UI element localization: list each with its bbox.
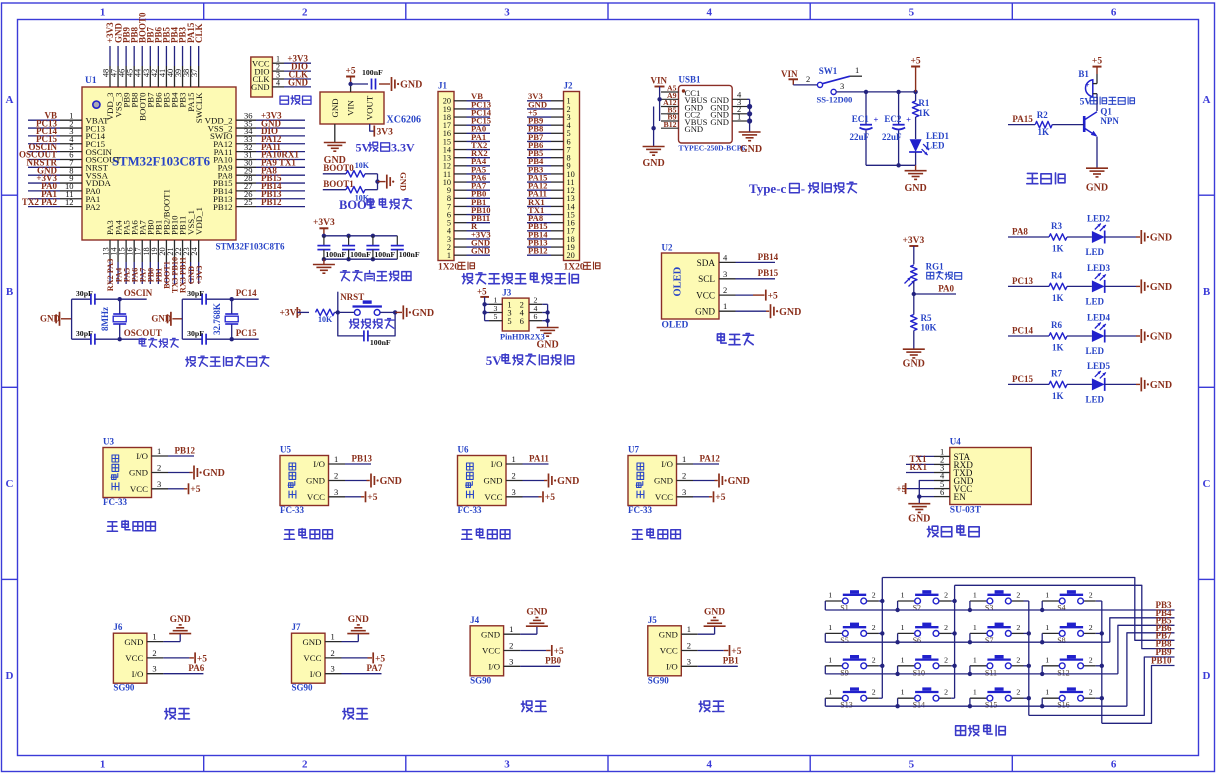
power +5 (523, 491, 556, 503)
svg-text:1: 1 (828, 688, 832, 697)
svg-text:OLED: OLED (672, 266, 683, 296)
svg-text:20: 20 (567, 251, 575, 260)
node PC15 (230, 328, 259, 341)
svg-text:1: 1 (1045, 591, 1049, 600)
svg-text:TYPEC-250D-BCP6: TYPEC-250D-BCP6 (679, 144, 746, 153)
wire gnd rail (866, 163, 916, 167)
resistor R6 1K (1049, 333, 1067, 339)
svg-text:22uF: 22uF (882, 132, 902, 142)
svg-text:S12: S12 (1057, 668, 1069, 677)
svg-text:1: 1 (828, 623, 832, 632)
svg-text:J3: J3 (502, 288, 512, 298)
svg-text:SDA: SDA (697, 258, 716, 268)
svg-text:VCC: VCC (125, 653, 143, 663)
U1 pin 38 PA15 (182, 22, 196, 112)
svg-text:B: B (1203, 286, 1211, 298)
svg-text:37: 37 (190, 69, 199, 77)
wire row3 to PB5 (1118, 625, 1175, 674)
node PC13 (1008, 285, 1049, 287)
svg-text:J6: J6 (113, 622, 123, 632)
wire (1067, 285, 1092, 287)
svg-text:2: 2 (331, 648, 335, 658)
svg-text:GND: GND (399, 172, 409, 191)
node PB15 (736, 268, 779, 279)
svg-text:SG90: SG90 (648, 675, 670, 685)
pushbutton reset (338, 300, 395, 315)
svg-text:PA11: PA11 (529, 453, 549, 463)
svg-text:-: - (801, 181, 805, 196)
svg-text:S3: S3 (985, 604, 993, 613)
node OSCOUT (118, 328, 162, 341)
wire row2 to PB4 (1110, 618, 1175, 642)
svg-text:J2: J2 (564, 81, 574, 91)
ic U5 FC-33 (280, 445, 345, 516)
svg-text:VCC: VCC (303, 653, 321, 663)
U1 pin 7 NRST (26, 158, 108, 173)
svg-text:5V: 5V (356, 141, 371, 155)
svg-text:1K: 1K (1052, 343, 1064, 353)
svg-text:GND: GND (659, 629, 678, 639)
svg-text:R1: R1 (918, 98, 929, 108)
svg-text:VCC: VCC (307, 492, 325, 502)
ground (168, 466, 225, 480)
U1 pin 15 PA5 (118, 220, 132, 284)
U1 pin 31 PA10 (213, 150, 305, 165)
capacitor 100nF filter 4 (391, 236, 420, 259)
svg-text:2: 2 (872, 591, 876, 600)
svg-text:+: + (906, 115, 911, 125)
svg-text:3: 3 (840, 81, 844, 91)
svg-text:GND: GND (685, 124, 704, 134)
U1 pin 11 PA1 (28, 189, 100, 204)
ground (1140, 329, 1142, 343)
svg-text:PA2: PA2 (86, 202, 101, 212)
U1 pin 30 PA9 (218, 158, 305, 173)
svg-text:LED2: LED2 (1087, 214, 1111, 224)
ground (1140, 377, 1142, 391)
power +5 (896, 483, 934, 495)
svg-text:SWCLK: SWCLK (194, 92, 204, 123)
svg-text:Type-c: Type-c (749, 181, 787, 196)
crystal 8MHz (100, 299, 126, 339)
svg-text:10K: 10K (318, 315, 333, 324)
svg-text:3: 3 (682, 487, 686, 497)
svg-text:2: 2 (1089, 688, 1093, 697)
svg-text:LED5: LED5 (1087, 361, 1111, 371)
svg-text:FC-33: FC-33 (458, 505, 482, 515)
svg-text:6: 6 (1111, 759, 1117, 771)
U1 pin 8 VSSA (28, 165, 109, 180)
svg-text:1: 1 (828, 655, 832, 664)
svg-text:1: 1 (157, 446, 161, 456)
svg-text:1: 1 (331, 632, 335, 642)
svg-text:2: 2 (872, 655, 876, 664)
power +5 (693, 491, 726, 503)
connector download port (251, 54, 311, 97)
svg-text:2: 2 (944, 623, 948, 632)
svg-text:1: 1 (512, 454, 516, 464)
led LED4 (1092, 330, 1105, 342)
title 舵机 (165, 708, 190, 719)
svg-text:NPN: NPN (1100, 116, 1119, 126)
svg-text:3: 3 (723, 269, 727, 279)
title 单片机最小系统 (186, 356, 269, 366)
svg-text:RX1: RX1 (910, 462, 928, 472)
title 5V降压3.3V (356, 141, 416, 155)
node PA12 (693, 453, 720, 464)
U1 pin 37 SWCLK (190, 23, 204, 123)
svg-text:S1: S1 (840, 604, 848, 613)
svg-text:2: 2 (872, 623, 876, 632)
svg-text:100nF: 100nF (374, 250, 395, 259)
wire column 3 (1024, 601, 1032, 715)
svg-text:25: 25 (244, 197, 253, 207)
svg-text:2: 2 (682, 471, 686, 481)
capacitor 30pF bottom (182, 329, 231, 345)
svg-text:30pF: 30pF (187, 329, 204, 338)
svg-text:1: 1 (901, 591, 905, 600)
led LED3 (1092, 280, 1105, 292)
svg-text:2: 2 (1089, 655, 1093, 664)
U1 pin 1 VBAT (28, 110, 109, 125)
ground left (642, 107, 664, 170)
svg-text:PA7: PA7 (367, 663, 383, 673)
U1 pin 33 PA12 (213, 134, 305, 149)
resistor R7 1K (1049, 381, 1067, 387)
svg-text:LED1: LED1 (926, 131, 950, 141)
wire col2 to PB8 (955, 585, 1175, 648)
svg-text:S15: S15 (985, 701, 997, 710)
svg-text:GND: GND (483, 476, 502, 486)
svg-text:BOOT0: BOOT0 (323, 163, 354, 173)
svg-text:+5: +5 (1092, 56, 1102, 66)
svg-text:+5: +5 (911, 56, 921, 66)
svg-text:I/O: I/O (136, 451, 148, 461)
led row LED4 (1008, 313, 1172, 357)
svg-text:D: D (6, 670, 14, 682)
U1 pin 17 PA7 (134, 220, 148, 284)
ground (523, 474, 580, 488)
svg-text:2: 2 (944, 688, 948, 697)
svg-text:PC13: PC13 (1012, 276, 1033, 286)
svg-text:2: 2 (723, 285, 727, 295)
svg-text:GND: GND (779, 307, 801, 318)
U1 pin 36 VDD_2 (205, 110, 305, 125)
svg-text:1: 1 (855, 65, 859, 75)
servo J4 (470, 608, 564, 712)
svg-text:2: 2 (806, 74, 810, 84)
svg-text:EN: EN (954, 492, 967, 502)
ground (151, 312, 182, 326)
svg-text:4: 4 (706, 759, 712, 771)
node PB5 (1155, 615, 1172, 625)
svg-text:12: 12 (65, 197, 74, 207)
svg-text:24: 24 (190, 247, 199, 256)
ground above (163, 615, 191, 642)
svg-text:C: C (1203, 478, 1211, 490)
svg-text:GND: GND (710, 117, 729, 127)
svg-text:3: 3 (334, 487, 338, 497)
title 晶振电路 (139, 338, 178, 347)
connector USB1 TYPEC-250D-BCP6 (661, 75, 747, 153)
svg-text:2: 2 (334, 471, 338, 481)
svg-text:J4: J4 (470, 615, 480, 625)
svg-text:PA15: PA15 (1012, 114, 1033, 124)
power +5 rail J3 (477, 287, 489, 321)
svg-text:USB1: USB1 (679, 75, 702, 85)
node PC14 (230, 288, 259, 301)
U1 pin 39 PB3 (174, 26, 188, 107)
power +5 (342, 652, 386, 664)
U1 pin 28 PB15 (213, 173, 305, 188)
node PA15 (1008, 114, 1035, 125)
svg-text:GND: GND (151, 313, 172, 323)
photoresistor RG1 (905, 262, 962, 287)
node PB6 (1155, 623, 1172, 633)
crystal circuit 8MHz (40, 288, 162, 345)
capacitor EC1 22uF (850, 92, 879, 165)
svg-text:2: 2 (872, 688, 876, 697)
led row LED2 (1008, 214, 1172, 258)
svg-text:+5: +5 (768, 292, 778, 302)
switch S1 (825, 590, 879, 612)
wire (1067, 335, 1092, 337)
svg-text:OSCIN: OSCIN (124, 288, 153, 298)
capacitor 100nF filter 1 (317, 236, 346, 259)
title 矩阵键盘 (956, 725, 1006, 736)
crystal circuit 32.768K (151, 288, 258, 345)
svg-text:1X20: 1X20 (438, 263, 459, 273)
title 蜂鸣器 (1027, 173, 1065, 184)
svg-text:1: 1 (100, 7, 106, 19)
ground (40, 312, 72, 326)
svg-text:3: 3 (512, 487, 516, 497)
svg-text:5: 5 (507, 316, 511, 326)
switch S11 (970, 655, 1024, 677)
power VIN left (651, 76, 668, 122)
wire (1105, 335, 1136, 337)
resistor R2 1K (1035, 110, 1084, 137)
buzzer B1 (1078, 69, 1134, 108)
title 显示屏 (717, 333, 753, 345)
resistor 10K (BOOT1) (346, 187, 378, 203)
resistor R4 1K (1049, 283, 1067, 289)
power +5 (346, 66, 356, 92)
svg-text:TX2 PA2: TX2 PA2 (22, 197, 58, 207)
svg-text:GND: GND (481, 629, 500, 639)
svg-text:GND: GND (904, 183, 926, 194)
connector J5 SG90 (648, 615, 698, 686)
svg-text:GND: GND (348, 615, 369, 625)
svg-text:GND: GND (1150, 380, 1172, 391)
svg-text:5: 5 (909, 759, 915, 771)
node PA8 (1008, 236, 1049, 238)
ground above (520, 608, 548, 635)
svg-text:GND: GND (1150, 233, 1172, 244)
wire row 3 (825, 666, 1118, 676)
node PC14 (1008, 335, 1049, 337)
svg-text:S9: S9 (840, 668, 848, 677)
svg-text:EC2: EC2 (884, 114, 902, 124)
svg-text:GND: GND (1150, 282, 1172, 293)
svg-text:3: 3 (152, 664, 156, 674)
svg-text:PA8: PA8 (1012, 227, 1028, 237)
svg-text:100nF: 100nF (370, 338, 391, 347)
svg-text:S2: S2 (913, 604, 921, 613)
ground (1140, 279, 1142, 293)
svg-text:1: 1 (723, 301, 727, 311)
svg-text:5V: 5V (1080, 98, 1092, 108)
ground rail J3 (536, 304, 558, 350)
power +5 (1092, 56, 1102, 83)
U1 pin 47 VSS_3 (110, 22, 124, 117)
svg-text:S4: S4 (1057, 604, 1065, 613)
svg-text:3: 3 (687, 656, 691, 666)
U1 pin 41 PB5 (158, 26, 172, 107)
svg-text:+: + (874, 115, 879, 125)
svg-text:SG90: SG90 (113, 683, 135, 693)
ic U3 FC-33 (103, 437, 168, 508)
svg-text:PB0: PB0 (545, 656, 562, 666)
svg-text:1: 1 (1045, 623, 1049, 632)
transistor Q1 NPN (1084, 107, 1119, 137)
U1 pin 24 VDD_1 (190, 207, 204, 284)
svg-text:U7: U7 (628, 445, 639, 455)
svg-text:RG1: RG1 (926, 262, 945, 272)
svg-text:GND: GND (471, 246, 490, 256)
wire (1067, 236, 1092, 238)
svg-text:SCL: SCL (698, 274, 715, 284)
ground right rail (739, 99, 763, 155)
svg-text:VCC: VCC (482, 646, 500, 656)
node BOOT0 (323, 163, 354, 174)
ground (908, 504, 930, 525)
wire col4 to PB10 (1102, 666, 1175, 724)
svg-text:SU-03T: SU-03T (950, 506, 982, 516)
svg-text:6: 6 (1111, 7, 1117, 19)
ground (736, 304, 802, 318)
U1 pin 9 VDDA (28, 173, 112, 188)
U1 pin 10 PA0 (28, 181, 101, 196)
svg-text:1: 1 (447, 251, 451, 260)
svg-text:LED: LED (1086, 296, 1105, 306)
svg-text:32.768K: 32.768K (212, 303, 222, 335)
regulator U XC6206 (320, 92, 421, 126)
title 语音识别 (927, 525, 979, 537)
svg-text:GND: GND (129, 468, 148, 478)
U1 pin 32 PA11 (214, 142, 305, 157)
svg-text:100nF: 100nF (350, 250, 371, 259)
svg-text:J1: J1 (438, 81, 448, 91)
svg-text:I/O: I/O (488, 662, 500, 672)
svg-text:30pF: 30pF (76, 289, 93, 298)
svg-text:2: 2 (1089, 591, 1093, 600)
svg-text:PA0: PA0 (938, 283, 954, 293)
svg-text:3: 3 (157, 479, 161, 489)
connector J6 SG90 (113, 622, 163, 693)
svg-text:30pF: 30pF (187, 289, 204, 298)
svg-text:1: 1 (509, 624, 513, 634)
wire col1 to PB7 (882, 578, 1174, 641)
svg-text:GND: GND (704, 608, 725, 618)
node PB0 (520, 656, 562, 667)
ic U6 FC-33 (458, 445, 523, 516)
svg-text:22uF: 22uF (850, 132, 870, 142)
svg-text:VOUT: VOUT (365, 95, 375, 120)
svg-text:GND: GND (526, 608, 547, 618)
title 单片机引脚外引排针 (462, 273, 578, 284)
svg-text:2: 2 (1089, 623, 1093, 632)
svg-text:3: 3 (331, 664, 335, 674)
wire (71, 299, 73, 339)
IR module U3 (103, 437, 225, 532)
title 舵机 (699, 701, 724, 712)
IR module U6 (458, 445, 580, 540)
title 红外对管 (107, 521, 155, 532)
U1 pin 23 VSS_1 (182, 210, 196, 284)
svg-text:R5: R5 (921, 313, 932, 323)
svg-text:3: 3 (509, 656, 513, 666)
ic U4 SU-03T (934, 437, 1031, 516)
svg-text:3.3V: 3.3V (391, 141, 415, 155)
capacitor 100nF filter 3 (366, 236, 395, 259)
svg-text:GND: GND (251, 82, 269, 92)
ground (693, 474, 750, 488)
svg-text:GND: GND (642, 158, 664, 169)
wire (1105, 236, 1136, 238)
capacitor EC2 22uF (882, 92, 911, 165)
resistor 10K reset (316, 309, 338, 324)
U1 pin 18 PB0 (142, 219, 156, 284)
svg-text:+5: +5 (190, 485, 200, 495)
capacitor 100nF filter 2 (342, 236, 371, 259)
svg-text:GND: GND (380, 476, 402, 487)
svg-text:1K: 1K (1038, 127, 1050, 137)
svg-text:6: 6 (940, 487, 944, 497)
node PB12 (168, 445, 196, 456)
svg-text:PB12: PB12 (175, 445, 196, 455)
connector J3 PinHDR2X3 (489, 288, 545, 342)
U1 pin 2 PC13 (28, 118, 106, 133)
svg-text:I/O: I/O (666, 662, 678, 672)
svg-text:BOOT1: BOOT1 (323, 179, 354, 189)
U1 pin 48 VDD_3 (102, 22, 116, 120)
node PB14 (736, 252, 779, 263)
svg-text:EC1: EC1 (852, 114, 870, 124)
svg-text:I/O: I/O (313, 459, 325, 469)
svg-text:10K: 10K (921, 323, 937, 333)
svg-text:PB1: PB1 (723, 656, 740, 666)
svg-text:6: 6 (520, 316, 524, 326)
svg-text:100nF: 100nF (399, 250, 420, 259)
power +5 (345, 491, 378, 503)
svg-text:PB14: PB14 (758, 252, 779, 262)
U1 pin 13 PA3 (102, 220, 116, 292)
svg-text:1: 1 (737, 111, 741, 121)
svg-text:PB12: PB12 (528, 246, 548, 256)
svg-text:GND: GND (124, 637, 143, 647)
svg-text:GND: GND (330, 98, 340, 117)
power +5 (520, 645, 564, 657)
svg-text:S11: S11 (985, 668, 997, 677)
wire (1067, 383, 1092, 385)
svg-text:S7: S7 (985, 636, 993, 645)
svg-text:U1: U1 (85, 76, 97, 86)
svg-text:+5: +5 (367, 493, 377, 503)
svg-text:1: 1 (973, 591, 977, 600)
node PB3 (1155, 600, 1172, 610)
power +5 (163, 652, 207, 664)
